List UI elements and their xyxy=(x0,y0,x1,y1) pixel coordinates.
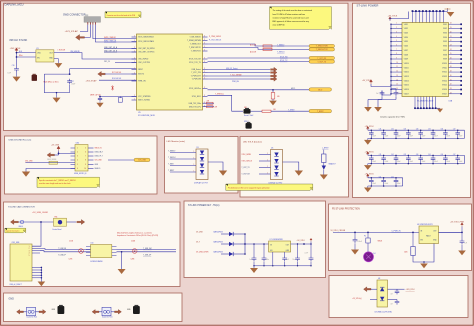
svg-text:T_SWCLK/TCK: T_SWCLK/TCK xyxy=(316,49,329,51)
svg-text:SWD_SWDIO: SWD_SWDIO xyxy=(104,37,116,39)
cap row top rail xyxy=(368,177,403,179)
svg-text:T_VCP_TX: T_VCP_TX xyxy=(317,61,326,63)
svg-text:4n7: 4n7 xyxy=(391,293,394,295)
svg-text:GND_DET_08_B: GND_DET_08_B xyxy=(104,50,118,52)
svg-text:100nF: 100nF xyxy=(409,161,413,163)
wire GND1 right xyxy=(36,311,40,313)
svg-text:T_USB_DP: T_USB_DP xyxy=(143,255,151,257)
mcu U5 right pin stubs xyxy=(203,37,208,107)
gnd symbol U6 xyxy=(423,262,425,264)
wire 5V top run xyxy=(18,221,53,223)
capacitor C30 100nF xyxy=(366,129,376,139)
svg-text:STLK_RX: STLK_RX xyxy=(280,56,288,58)
note N4 pin swap xyxy=(226,184,313,190)
svg-text:OUT: OUT xyxy=(49,53,53,55)
svg-text:100nF: 100nF xyxy=(385,183,389,185)
svg-text:VSS3: VSS3 xyxy=(443,33,447,35)
junction +5V node xyxy=(58,153,60,155)
svg-text:USB_DP_T: USB_DP_T xyxy=(95,156,103,158)
power switch U6 body xyxy=(419,226,439,244)
net labels CN4 right xyxy=(95,148,104,171)
net tag T_NRST xyxy=(309,109,332,112)
junction node osc vdd xyxy=(16,52,18,54)
capacitor C16 osc vdd xyxy=(14,67,19,72)
svg-text:4R8 R 1.6F 10K: 4R8 R 1.6F 10K xyxy=(90,95,101,97)
svg-text:U10: U10 xyxy=(91,243,94,245)
svg-text:VDD7: VDD7 xyxy=(404,50,408,52)
svg-text:100nF: 100nF xyxy=(409,136,413,138)
svg-text:C43: C43 xyxy=(403,154,406,156)
svg-text:1uF: 1uF xyxy=(465,242,468,244)
svg-text:5_PWR_IN: 5_PWR_IN xyxy=(391,230,401,232)
svg-text:5V0_USB: 5V0_USB xyxy=(138,160,146,162)
variant mark X1b xyxy=(132,249,137,254)
power arrow +5V_STLK xyxy=(310,238,312,241)
wire OSC_OUT row xyxy=(115,62,137,64)
capacitor C37 100nF xyxy=(453,129,463,139)
mcu U5B left pin stubs xyxy=(391,24,402,94)
mounting photo GND1 (black) xyxy=(58,305,65,314)
capacitor C44 100nF xyxy=(416,154,426,164)
svg-text:USB4_MICRO_B: USB4_MICRO_B xyxy=(74,173,86,175)
svg-text:C36: C36 xyxy=(441,129,444,131)
svg-text:USB_Detect: USB_Detect xyxy=(192,68,202,71)
wire T_PWR_EXT row xyxy=(208,75,271,77)
wire NRST pull row xyxy=(105,73,137,75)
svg-text:3: 3 xyxy=(77,156,78,158)
bypass cap C42 xyxy=(282,256,287,261)
svg-text:VBUS_5V: VBUS_5V xyxy=(95,148,103,150)
wire up to power label xyxy=(461,227,463,233)
svg-text:DISPLAY 5x7 PKT: DISPLAY 5x7 PKT xyxy=(194,182,208,185)
svg-text:C33: C33 xyxy=(403,129,406,131)
svg-text:22R: 22R xyxy=(215,106,218,108)
capacitor C45 100nF xyxy=(428,154,438,164)
note N1 connector on PCB border xyxy=(105,12,141,18)
svg-text:+3V_STLK: +3V_STLK xyxy=(365,152,375,154)
svg-text:VDD10: VDD10 xyxy=(404,63,409,65)
wire T_SWCLK row to tag xyxy=(208,48,310,50)
svg-text:CN4: CN4 xyxy=(76,143,80,145)
svg-text:5V0_USB: 5V0_USB xyxy=(25,161,33,163)
svg-text:6: 6 xyxy=(77,168,78,170)
svg-text:PWR_ON: PWR_ON xyxy=(138,81,146,83)
svg-text:100nF: 100nF xyxy=(385,136,389,138)
wire U5 GND_DET rows xyxy=(104,48,137,50)
svg-text:T_VCP_RX: T_VCP_RX xyxy=(241,174,250,176)
svg-text:Ceramic capacitor (X or Y5R): Ceramic capacitor (X or Y5R) xyxy=(380,116,405,119)
common mode filter U10 body xyxy=(91,245,112,258)
gnd symbol under C21 xyxy=(395,96,397,99)
gnd symbol bottom right U5B xyxy=(436,107,440,109)
esd diodes inside U8 xyxy=(380,287,384,291)
svg-text:STLK_LED/Pxx: STLK_LED/Pxx xyxy=(189,88,201,90)
svg-text:5V_T: 5V_T xyxy=(196,241,200,243)
svg-text:T_SWCLK/TCK: T_SWCLK/TCK xyxy=(189,47,202,49)
svg-text:EN: EN xyxy=(270,250,272,252)
power arrow cap row xyxy=(367,152,370,156)
power pin arrow +3V_STLK top xyxy=(389,17,392,21)
svg-text:10nF: 10nF xyxy=(8,72,12,74)
section DAPLINK_MCU border xyxy=(4,3,349,130)
gnd symbol cap row xyxy=(367,164,369,166)
svg-text:+5V_USB_CHGR: +5V_USB_CHGR xyxy=(32,212,48,214)
capacitor C60 xyxy=(395,289,400,294)
svg-text:+5V_USB: +5V_USB xyxy=(51,145,60,147)
wire vdd to C16 xyxy=(16,57,18,67)
connector J1 SWD (gray) xyxy=(84,17,101,23)
svg-text:C52: C52 xyxy=(391,176,394,178)
wire gnd drop CN4 xyxy=(26,169,75,172)
svg-text:PWR_EN: PWR_EN xyxy=(232,81,240,83)
svg-text:USB (STLINK Receive): USB (STLINK Receive) xyxy=(9,140,32,142)
svg-text:STLK_SWDIO/PA13: STLK_SWDIO/PA13 xyxy=(138,36,153,39)
shield bus to gnd xyxy=(40,267,42,281)
svg-text:+3V3_STLAP: +3V3_STLAP xyxy=(65,30,79,33)
svg-text:2: 2 xyxy=(134,61,135,63)
gnd symbol top right U5B xyxy=(447,9,449,12)
junction VCC cap xyxy=(99,96,101,98)
svg-text:100n: 100n xyxy=(398,93,402,95)
svg-text:2: 2 xyxy=(134,95,135,97)
svg-text:1: 1 xyxy=(77,148,78,150)
gnd symbol C50 xyxy=(354,243,356,249)
mcu U5 left pin names xyxy=(138,36,155,102)
svg-text:100nF: 100nF xyxy=(372,183,376,185)
svg-text:VDD12: VDD12 xyxy=(404,72,409,74)
bottom pin stubs U5B xyxy=(415,97,436,109)
svg-text:BUKT_1V/GND: BUKT_1V/GND xyxy=(138,100,151,102)
mcu U5 STM32F103 body xyxy=(137,34,203,110)
capacitor C8 xyxy=(98,97,102,102)
cap row top rail xyxy=(368,154,465,156)
svg-text:LED STLK (bicolor): LED STLK (bicolor) xyxy=(243,140,262,143)
connector CN5 shield pins xyxy=(32,267,42,279)
svg-text:C44: C44 xyxy=(416,154,419,156)
resistor R10 22R xyxy=(263,45,272,47)
svg-text:VDD1: VDD1 xyxy=(404,24,408,26)
svg-text:T_SW_SWDIO: T_SW_SWDIO xyxy=(189,37,201,39)
section LED bicolor border xyxy=(240,137,349,198)
pins J1 xyxy=(87,22,89,24)
svg-text:3: 3 xyxy=(204,95,205,97)
capacitor C50 100nF xyxy=(366,176,376,186)
port arrow USB_Detect xyxy=(271,67,278,71)
wire +3V3 to oscillator xyxy=(17,52,36,57)
svg-text:T_VCC_25V: T_VCC_25V xyxy=(191,72,201,74)
gnd symbol power key xyxy=(253,266,255,268)
cap row right link xyxy=(463,130,465,138)
svg-text:VSS10: VSS10 xyxy=(442,63,447,65)
no connect cross xyxy=(111,85,113,90)
filter U10 right stubs xyxy=(112,247,117,256)
svg-text:VDD9: VDD9 xyxy=(404,59,408,61)
net tag T_VCP_RX xyxy=(309,56,335,59)
svg-text:100nF: 100nF xyxy=(422,136,426,138)
svg-text:+3V3_STLK: +3V3_STLK xyxy=(10,48,22,50)
svg-text:USB_uF_SVHCT: USB_uF_SVHCT xyxy=(10,284,22,286)
svg-text:SWD CONNECTOR: SWD CONNECTOR xyxy=(63,13,86,16)
svg-text:22R: 22R xyxy=(207,100,210,102)
junction 5V drop xyxy=(40,221,42,223)
svg-text:10: 10 xyxy=(84,168,86,170)
svg-text:5V_STLK_CN/USB: 5V_STLK_CN/USB xyxy=(331,230,346,232)
wire bus to caps xyxy=(382,91,391,96)
svg-text:13: 13 xyxy=(396,75,398,77)
svg-text:U7 LD3985M33R: U7 LD3985M33R xyxy=(270,239,284,241)
gnd symbol under C20 xyxy=(381,96,383,99)
svg-text:VDD5: VDD5 xyxy=(404,41,408,43)
wire J1 pin1 to +3V3_STLAP xyxy=(80,25,88,32)
svg-text:C51: C51 xyxy=(379,176,382,178)
capacitor C33 100nF xyxy=(403,129,413,139)
svg-text:C47: C47 xyxy=(453,154,456,156)
svg-text:D6: D6 xyxy=(271,147,273,149)
capacitor C21 100n xyxy=(394,91,399,96)
svg-text:VDD11: VDD11 xyxy=(404,67,409,69)
net tie NT2 body xyxy=(102,307,111,315)
cap row bottom rail xyxy=(368,137,465,139)
wire 5V0_USB row xyxy=(26,162,76,164)
svg-text:3: 3 xyxy=(204,102,205,104)
svg-text:U8 USBLC6-2P6 (TIM): U8 USBLC6-2P6 (TIM) xyxy=(375,311,393,313)
connector CN4 right pin stubs xyxy=(88,148,94,169)
caps bottom rail xyxy=(254,265,311,267)
svg-text:499: 499 xyxy=(277,96,280,98)
svg-text:VSS9: VSS9 xyxy=(443,59,447,61)
svg-text:100nF: 100nF xyxy=(372,161,376,163)
svg-text:2: 2 xyxy=(134,51,135,53)
svg-text:1 R18 10R: 1 R18 10R xyxy=(58,49,66,51)
svg-text:C32: C32 xyxy=(391,129,394,131)
connector CN4 left pin stubs xyxy=(71,148,76,169)
capacitor C35 100nF xyxy=(428,129,438,139)
wire USB_Detect row xyxy=(208,69,271,71)
svg-text:C17: C17 xyxy=(71,81,74,83)
wire D6 common to gnd xyxy=(283,162,299,171)
connector CN4 body xyxy=(75,145,88,172)
svg-text:3: 3 xyxy=(204,61,205,63)
wire J1 pin2 to GND port xyxy=(85,25,91,38)
gnd symbol under oscillator xyxy=(58,59,60,63)
svg-text:100nF: 100nF xyxy=(459,161,463,163)
capacitor C52 100nF xyxy=(391,176,401,186)
capacitor C36 100nF xyxy=(441,129,451,139)
svg-text:VDD2: VDD2 xyxy=(404,28,408,30)
svg-text:MCO: MCO xyxy=(291,88,296,90)
wire CN4 5V row to tag xyxy=(108,159,134,161)
svg-text:5V0_USB: 5V0_USB xyxy=(95,160,102,162)
led diodes inside D5 xyxy=(200,151,204,175)
svg-text:100nF: 100nF xyxy=(385,161,389,163)
power arrow cap row xyxy=(367,174,370,178)
svg-text:STLK_SWCLK/PA14: STLK_SWCLK/PA14 xyxy=(138,40,154,43)
wires caps bottom to rail xyxy=(254,262,311,266)
svg-text:VSS1: VSS1 xyxy=(443,24,447,26)
capacitor C34 100nF xyxy=(416,129,426,139)
svg-text:BOOT0: BOOT0 xyxy=(138,74,144,76)
svg-text:VDD8: VDD8 xyxy=(404,54,408,56)
svg-text:OSC_24: OSC_24 xyxy=(104,61,110,63)
svg-text:16: 16 xyxy=(396,88,398,90)
cap row bottom rail xyxy=(368,185,403,187)
svg-text:VDD15: VDD15 xyxy=(404,85,409,87)
svg-text:+5V_STLK(s): +5V_STLK(s) xyxy=(352,298,362,300)
svg-text:VDD17: VDD17 xyxy=(404,93,409,95)
svg-text:MCO: MCO xyxy=(318,89,323,91)
svg-text:100nF: 100nF xyxy=(358,241,362,243)
section 5V ST-LINK PROTECTION border xyxy=(329,204,472,271)
net tag T_VCP_TX xyxy=(309,60,335,63)
svg-text:T_VCP_RX: T_VCP_RX xyxy=(317,58,327,60)
svg-text:10: 10 xyxy=(396,62,398,64)
vertical bus diodes xyxy=(244,234,246,254)
svg-text:OSC_NET_IN_N/PD0: OSC_NET_IN_N/PD0 xyxy=(138,48,155,50)
svg-text:VDD14: VDD14 xyxy=(404,80,409,82)
variant mark X1a xyxy=(79,249,84,254)
svg-text:USB_TVX_DMo: USB_TVX_DMo xyxy=(189,103,201,105)
svg-text:3: 3 xyxy=(204,46,205,48)
wire filter loop left+bottom xyxy=(44,74,69,93)
svg-text:U8: U8 xyxy=(378,278,380,280)
junction MCO xyxy=(272,89,274,91)
wire STLK_TX row to tag xyxy=(208,61,310,63)
junction R en xyxy=(412,232,414,234)
port arrow 5V right xyxy=(77,220,85,225)
wire GND1 left xyxy=(24,311,27,313)
svg-text:8M CLK STLINK: 8M CLK STLINK xyxy=(10,39,28,42)
wire filter to connector edge DP xyxy=(117,251,177,253)
output caps C43 C44 xyxy=(295,256,300,261)
svg-text:100nF: 100nF xyxy=(71,84,75,86)
junction out right xyxy=(461,232,463,234)
wires U8 right xyxy=(388,288,398,290)
svg-text:FB1: FB1 xyxy=(55,216,58,218)
wire GND2 left xyxy=(99,311,102,313)
wire D5 common to gnd xyxy=(208,162,223,171)
svg-text:100nF: 100nF xyxy=(397,183,401,185)
main 5V wire xyxy=(333,231,462,233)
svg-text:VDD16: VDD16 xyxy=(404,89,409,91)
net tag 5V0_USB xyxy=(134,158,150,161)
svg-text:T_NRST: T_NRST xyxy=(168,170,174,172)
wire loop up to NRST row xyxy=(69,69,71,75)
vdd pin stubs top U5B xyxy=(413,12,444,23)
svg-text:VSS11: VSS11 xyxy=(442,67,447,69)
svg-text:C34: C34 xyxy=(416,129,419,131)
svg-text:T_SWIM_IN/PWM: T_SWIM_IN/PWM xyxy=(187,40,201,42)
svg-text:T_VCP_TX: T_VCP_TX xyxy=(241,167,250,169)
svg-text:STLK_TCK_RX: STLK_TCK_RX xyxy=(189,59,202,61)
svg-text:2: 2 xyxy=(134,40,135,42)
wire U6 out xyxy=(439,231,463,233)
capacitor C50 100nF xyxy=(353,238,358,243)
resistor R12 499R to gnd xyxy=(272,90,274,93)
svg-text:VCC_STEPPED: VCC_STEPPED xyxy=(138,96,151,98)
wire diode 5V_USB out xyxy=(233,233,245,235)
wire USB_DM to filter xyxy=(40,249,91,250)
svg-text:DAPLINK_MCU: DAPLINK_MCU xyxy=(5,3,24,7)
svg-text:T_USB_DM: T_USB_DM xyxy=(143,248,152,250)
svg-text:STLK_SWCLK: STLK_SWCLK xyxy=(242,161,253,163)
junction C50 xyxy=(354,232,356,234)
pin numbers U5B right column xyxy=(450,23,452,95)
svg-text:U6 STMPS2141STR: U6 STMPS2141STR xyxy=(417,224,433,226)
svg-text:F2: F2 xyxy=(364,235,366,237)
svg-text:GND4: GND4 xyxy=(18,226,23,228)
svg-text:D5: D5 xyxy=(197,147,199,149)
mcu U5B right pin names VSS xyxy=(442,24,447,96)
led array D5 body xyxy=(196,149,208,180)
tvs varistor D4 (purple) xyxy=(364,252,374,262)
svg-text:OUT: OUT xyxy=(286,245,289,247)
svg-text:T_NRST(s): T_NRST(s) xyxy=(215,94,224,96)
gnd symbol filter U10 xyxy=(118,269,126,274)
svg-text:T_SWIM_OUT: T_SWIM_OUT xyxy=(190,44,201,46)
diode D 5V_USB_CHGR xyxy=(221,253,229,255)
capacitor C43 100nF xyxy=(403,154,413,164)
svg-text:10n: 10n xyxy=(293,259,296,261)
capacitor C17 filter xyxy=(67,79,72,84)
port arrow left GND2 xyxy=(92,310,99,315)
svg-text:100nF: 100nF xyxy=(459,136,463,138)
filter U10 left stubs xyxy=(86,247,91,256)
connector CN5 data pin stubs xyxy=(32,246,40,253)
svg-text:100nF: 100nF xyxy=(397,136,401,138)
wire osc OUT to MCU OSC_IN xyxy=(54,53,137,59)
svg-text:VSS4: VSS4 xyxy=(443,37,447,39)
wire drop to CN5 pin1 xyxy=(32,222,41,246)
gnd symbol C51 xyxy=(461,245,463,251)
svg-text:OSC_OUT/PD1: OSC_OUT/PD1 xyxy=(138,62,150,64)
svg-text:C45: C45 xyxy=(428,154,431,156)
svg-text:USB_TVX_DPo: USB_TVX_DPo xyxy=(189,106,201,108)
capacitor C31 100nF xyxy=(379,129,389,139)
svg-text:P_JTMS_SWDIO: P_JTMS_SWDIO xyxy=(209,36,222,38)
junction dots right pins U5B xyxy=(460,23,462,94)
svg-text:STLK_TCK_TX: STLK_TCK_TX xyxy=(189,62,202,64)
section LED monitor border xyxy=(165,137,239,194)
capacitor C51 100nF xyxy=(379,176,389,186)
gnd symbol cap row xyxy=(367,138,369,140)
cap row right link xyxy=(402,178,404,186)
svg-text:+3V_STLK: +3V_STLK xyxy=(362,80,372,82)
gnd symbol CN4 xyxy=(22,172,30,177)
junction loop xyxy=(69,73,71,75)
svg-text:3: 3 xyxy=(204,58,205,60)
section USB filter border xyxy=(329,276,468,318)
svg-text:1uF: 1uF xyxy=(286,259,289,261)
svg-text:+3V_STLK: +3V_STLK xyxy=(365,126,375,128)
mcu U5 left pin stubs xyxy=(132,37,137,100)
wires into D6 xyxy=(241,153,270,176)
svg-text:STLK_TX: STLK_TX xyxy=(280,60,288,62)
svg-text:3: 3 xyxy=(204,71,205,73)
svg-text:5V_USB: 5V_USB xyxy=(196,231,203,233)
svg-text:P_JTCK_SWCLK: P_JTCK_SWCLK xyxy=(209,39,222,41)
mcu U5B left pin names VDD xyxy=(404,24,409,96)
svg-text:SHIELD: SHIELD xyxy=(95,168,102,170)
svg-text:4: 4 xyxy=(77,160,78,162)
svg-text:+3V3_STLAP: +3V3_STLAP xyxy=(86,79,98,82)
port arrow VBUS left xyxy=(47,153,55,158)
wire cap to loop bottom xyxy=(69,85,71,93)
capacitor C46 100nF xyxy=(441,154,451,164)
svg-text:3: 3 xyxy=(204,39,205,41)
gnd symbol R12 xyxy=(272,99,274,101)
cap row bottom rail xyxy=(368,163,465,165)
junction out xyxy=(303,243,305,245)
